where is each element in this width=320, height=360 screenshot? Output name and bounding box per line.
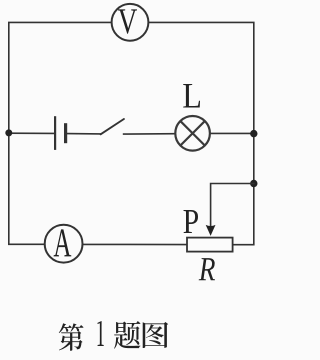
wire slider tap (node to arrow) bbox=[211, 184, 254, 227]
resistor R box bbox=[187, 238, 233, 252]
node junction dot right (slider tap) bbox=[250, 180, 257, 187]
wire top-left (left rail to voltmeter) bbox=[9, 22, 112, 133]
switch blade (open) bbox=[101, 119, 124, 134]
wire ammeter to resistor R bbox=[83, 243, 187, 245]
ammeter A circle bbox=[45, 225, 83, 263]
battery negative plate (short) bbox=[64, 123, 67, 143]
wire lamp L to right rail bbox=[210, 132, 254, 134]
slider label P bbox=[184, 210, 198, 233]
lamp L circle bbox=[175, 116, 210, 151]
lamp label L bbox=[183, 84, 200, 107]
wire right rail (lamp node to slider node) bbox=[253, 134, 255, 183]
lamp X cross bbox=[181, 121, 205, 145]
caption char 题 bbox=[114, 321, 140, 349]
caption char 1 bbox=[98, 321, 104, 346]
node junction dot right (lamp branch) bbox=[250, 130, 257, 137]
battery positive plate (long) bbox=[54, 116, 56, 150]
caption char 第 bbox=[59, 323, 84, 351]
wire battery to switch bbox=[67, 133, 101, 135]
voltmeter V circle bbox=[112, 4, 149, 41]
wire top-right (voltmeter to right rail) bbox=[148, 22, 254, 133]
ammeter letter A bbox=[54, 229, 72, 256]
resistor label R (italic) bbox=[199, 258, 215, 280]
wire switch to lamp L bbox=[124, 133, 176, 135]
wire node to battery bbox=[9, 132, 54, 134]
caption char 图 bbox=[143, 322, 169, 348]
wire right rail (slider node to resistor) bbox=[233, 184, 254, 245]
wire left rail (node to ammeter) bbox=[9, 133, 45, 244]
slider arrow P bbox=[206, 225, 216, 236]
voltmeter letter V bbox=[118, 9, 137, 33]
node junction dot left (battery branch) bbox=[5, 129, 12, 136]
